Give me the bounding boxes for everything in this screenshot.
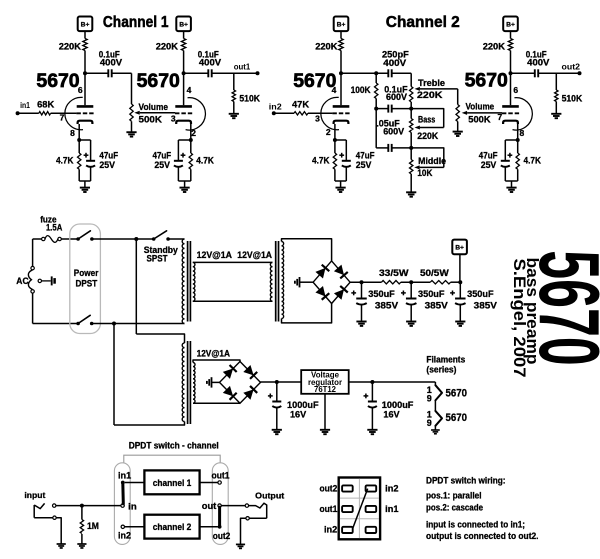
- svg-text:Channel 1: Channel 1: [103, 14, 169, 31]
- svg-text:385V: 385V: [425, 299, 449, 310]
- wire middle wiper loop: [411, 148, 444, 168]
- svg-text:Power: Power: [74, 267, 99, 278]
- svg-text:S.Engel, 2007: S.Engel, 2007: [510, 259, 529, 378]
- wire treble wiper down to volume pot (ch2): [457, 89, 459, 105]
- DPDT lug out2 (top-left): [342, 485, 353, 491]
- junction dot input / 1M: [80, 504, 84, 508]
- capacitor 47uF 25V cathode bypass (V2b): [501, 153, 513, 167]
- svg-text:5670: 5670: [446, 388, 468, 400]
- svg-text:Volume: Volume: [139, 102, 169, 112]
- junction dot plate node (V1b): [182, 71, 186, 75]
- svg-text:4.7K: 4.7K: [196, 156, 214, 166]
- DPDT lug nc (bottom-right): [366, 527, 377, 533]
- wire 47uF branch down (V1a): [90, 140, 92, 161]
- svg-text:5670: 5670: [465, 70, 508, 92]
- svg-text:2: 2: [326, 127, 331, 137]
- wire row3 left: [376, 147, 388, 149]
- potentiometer Volume 500K (ch1): [130, 104, 133, 121]
- wire 350uF 3 to ground: [459, 305, 461, 322]
- svg-text:25V: 25V: [154, 160, 170, 170]
- wire HV bridge plus to C1: [350, 281, 381, 283]
- junction dot cathode node (V1a): [77, 138, 81, 142]
- wire out contact to output jack: [221, 505, 245, 507]
- svg-text:510K: 510K: [562, 93, 583, 103]
- junction dot cathode node (V2b): [516, 138, 520, 142]
- wire in1 to channel1: [125, 482, 145, 484]
- transformer T2 secondary winding HV: [282, 242, 284, 319]
- wire out1 node to 510K: [233, 73, 235, 90]
- B+ supply box (V1a): [78, 17, 93, 32]
- DPDT jumper wire diagonal: [353, 489, 368, 528]
- wire T1 secondary to T2 primary top: [193, 261, 273, 263]
- resistor 510K grid leak (out2): [555, 90, 558, 102]
- resistor 4.7K cathode (V2a): [333, 153, 336, 169]
- svg-text:7: 7: [60, 113, 65, 123]
- wire B+ to 220K (V1a): [84, 31, 86, 39]
- switch Standby SPST: [152, 231, 170, 241]
- wire 4.7K to bottom rail (V1a): [78, 169, 80, 181]
- wire plate node to coupling cap (out2): [511, 72, 535, 74]
- wire 47K to grid (V2a): [308, 112, 333, 114]
- svg-text:350uF: 350uF: [368, 288, 395, 299]
- resistor 220K plate load (V2a): [339, 39, 343, 51]
- wire treble cap to right rail top: [392, 72, 412, 74]
- wire HV bridge minus to chassis: [300, 281, 314, 283]
- triode 5670 (V1b): [175, 98, 205, 130]
- wire 510K to ground (ch2): [555, 102, 557, 114]
- wire cathode node to 4.7K (V2b): [517, 140, 519, 153]
- switch Power DPST pole 2: [76, 315, 93, 325]
- wire 47uF to bottom rail (V2a): [345, 167, 347, 181]
- svg-text:220K: 220K: [483, 41, 505, 52]
- svg-text:350uF: 350uF: [418, 288, 445, 299]
- wire bass wiper loop: [411, 109, 444, 128]
- wire between heaters: [434, 400, 436, 411]
- wire treble to row2 junction: [410, 102, 412, 109]
- svg-text:220K: 220K: [417, 90, 443, 100]
- wire down to volume pot (ch1): [131, 73, 133, 104]
- wire 1000uF-1 to ground: [276, 408, 278, 430]
- svg-text:channel 2: channel 2: [153, 522, 192, 532]
- bridge rectifier LV diode upper-right: [243, 365, 257, 379]
- wire 1000uF-2 to ground: [371, 408, 373, 430]
- svg-text:1.5A: 1.5A: [46, 222, 62, 233]
- transformer T1 core: [188, 241, 191, 322]
- wire row2 right: [392, 108, 412, 110]
- block channel 1: [144, 470, 199, 494]
- DPDT lug in1 (mid-right): [366, 506, 377, 512]
- svg-text:500K: 500K: [139, 114, 163, 124]
- bridge rectifier HV diode lower-left: [315, 286, 329, 300]
- svg-text:25V: 25V: [481, 160, 497, 170]
- junction dot cathode node (V2a): [333, 138, 337, 142]
- svg-text:Channel 2: Channel 2: [386, 14, 460, 31]
- svg-text:4: 4: [187, 85, 192, 95]
- triode 5670 (V2a): [321, 97, 350, 129]
- svg-text:Volume: Volume: [466, 102, 495, 112]
- svg-text:in2: in2: [269, 102, 283, 111]
- resistor 220K plate load (V2b): [508, 39, 512, 51]
- svg-text:4.7K: 4.7K: [312, 156, 330, 166]
- wire left rail row2 to row3: [375, 109, 377, 148]
- svg-text:8: 8: [70, 128, 75, 138]
- wire out2 node to 510K: [555, 73, 557, 90]
- wiper arrow Bass: [415, 126, 444, 130]
- wire coupling cap to out1: [212, 72, 258, 74]
- svg-text:12V@1A: 12V@1A: [197, 348, 231, 359]
- wire DPST sw2 to T1 primary bottom: [92, 323, 185, 325]
- wire mains hot drop: [135, 239, 137, 334]
- wire B+ to 220K (V2a): [340, 31, 342, 39]
- svg-text:220K: 220K: [417, 131, 438, 141]
- svg-text:385V: 385V: [474, 299, 498, 310]
- svg-text:25V: 25V: [99, 160, 115, 170]
- svg-text:Treble: Treble: [418, 78, 445, 88]
- svg-text:600V: 600V: [386, 92, 408, 102]
- svg-text:47K: 47K: [292, 99, 309, 109]
- wire plate node to plate (V2a): [340, 73, 342, 105]
- svg-text:B+: B+: [455, 245, 464, 252]
- transformer T3 secondary winding 12V: [193, 363, 195, 404]
- wire 47uF to bottom rail (V1a): [90, 167, 92, 181]
- ground HV bridge minus: [295, 277, 300, 287]
- svg-text:510K: 510K: [239, 93, 260, 103]
- wire bass pot to row3: [410, 133, 412, 148]
- svg-text:500K: 500K: [468, 114, 491, 124]
- svg-text:SPST: SPST: [147, 252, 168, 263]
- svg-text:16V: 16V: [290, 408, 307, 419]
- wire 1M node to in contact: [82, 505, 121, 507]
- ground LV bridge minus: [207, 377, 212, 387]
- wire 4.7K to bottom rail (V2b): [517, 169, 519, 181]
- gray bracket from title to switch lozenges: [124, 455, 220, 463]
- wire AC left vertical bottom: [32, 293, 34, 323]
- wire T2 secondary top to bridge: [282, 239, 332, 261]
- wire in2 to 47K: [274, 112, 294, 114]
- switch contact out1: [218, 481, 221, 484]
- bridge rectifier HV diode lower-right: [334, 286, 348, 300]
- svg-text:Middle: Middle: [418, 156, 446, 166]
- wire coupling cap to volume pot (ch1): [112, 72, 132, 74]
- terminal dot out2: [578, 71, 582, 75]
- junction dot LV node 2: [370, 380, 374, 384]
- svg-text:pos.1: parallel: pos.1: parallel: [426, 491, 482, 501]
- capacitor 47uF 25V cathode bypass (V2a): [339, 153, 351, 167]
- svg-text:out2: out2: [213, 531, 231, 541]
- ground volume pot (ch2): [453, 132, 463, 136]
- wire regulator out: [349, 381, 436, 383]
- resistor 510K grid leak (out1): [232, 90, 235, 102]
- output jack tip contact and lever: [245, 503, 267, 518]
- wire cathode node to 4.7K (V2a): [334, 140, 336, 153]
- potentiometer Volume 500K (ch2): [456, 105, 459, 122]
- svg-text:(series): (series): [426, 364, 456, 375]
- svg-text:5670: 5670: [446, 412, 468, 424]
- wire bottom rail (V1a): [79, 180, 90, 182]
- wire AC left vertical top: [32, 239, 34, 266]
- ground cathode (V2b): [506, 188, 516, 192]
- resistor 4.7K cathode (V1a): [78, 153, 81, 169]
- wire plate node to plate (V1a): [84, 73, 86, 105]
- svg-text:in: in: [128, 501, 137, 511]
- svg-text:350uF: 350uF: [467, 288, 494, 299]
- svg-text:12V@1A: 12V@1A: [237, 249, 272, 260]
- svg-text:AC: AC: [16, 275, 29, 286]
- wire cathode node to 47uF branch (V1a): [79, 139, 90, 141]
- wire B+ box to HV node3: [459, 254, 461, 281]
- svg-text:B+: B+: [81, 21, 90, 28]
- wire 68K to grid (V1a): [51, 112, 77, 114]
- wire LV bridge plus to regulator: [261, 381, 302, 383]
- svg-text:220K: 220K: [156, 41, 178, 52]
- resistor 220K plate load (V1a): [83, 39, 87, 51]
- switch contact out: [218, 504, 221, 507]
- junction dot right rail row2: [409, 107, 413, 111]
- fuse 1.5A: [42, 236, 62, 243]
- junction dot plate node (V2a): [339, 71, 343, 75]
- svg-text:50/5W: 50/5W: [420, 267, 449, 278]
- wire plate node to coupling cap (V1a): [85, 72, 108, 74]
- wire HV node1 to 350uF: [361, 282, 363, 298]
- wire in2 to channel2: [125, 526, 145, 528]
- potentiometer Treble 220K: [410, 87, 413, 103]
- DPDT lug in2b (bottom-left): [342, 527, 353, 533]
- svg-text:channel 1: channel 1: [153, 478, 192, 488]
- wire neutral to T3 primary bottom: [114, 422, 185, 426]
- svg-text:B+: B+: [179, 21, 188, 28]
- wire cathode to cathode node (V1a): [78, 124, 80, 140]
- wire cathode node to 4.7K (V1a): [78, 140, 80, 153]
- DPDT lug in2 (top-right): [366, 485, 377, 491]
- svg-text:1M: 1M: [87, 521, 99, 531]
- heater filament V1: [435, 385, 442, 400]
- wire heater to ground: [434, 426, 436, 430]
- junction dot HV node 1: [360, 280, 364, 284]
- svg-text:7: 7: [498, 112, 503, 122]
- wire 1M to ground: [81, 534, 83, 544]
- wire row2 to bass pot: [410, 109, 412, 119]
- wire channel1 to out1: [200, 482, 218, 484]
- svg-text:pos.2: cascade: pos.2: cascade: [426, 503, 483, 513]
- wire 4.7K to bottom rail (V1b): [190, 169, 192, 181]
- ground output jack: [236, 544, 245, 548]
- output jack sleeve contact: [246, 517, 267, 520]
- wire DPST to standby junction: [92, 238, 154, 240]
- transformer T1 primary winding: [182, 239, 184, 324]
- capacitor 350uF 385V filter 2: [401, 291, 416, 305]
- wire LV bridge minus to chassis: [212, 381, 220, 383]
- svg-text:9: 9: [427, 418, 432, 428]
- capacitor 0.1uF 400V coupling (ch1): [108, 69, 111, 77]
- junction dot right rail row3: [409, 146, 413, 150]
- wire cathode to cathode node (V2a): [334, 124, 336, 140]
- svg-text:out2: out2: [562, 63, 581, 72]
- wire rail to ground (V1b): [184, 181, 186, 188]
- capacitor 1000uF 16V output: [364, 394, 377, 408]
- svg-text:25V: 25V: [356, 160, 372, 170]
- wire channel2 to out2: [200, 526, 218, 528]
- svg-text:Output: Output: [255, 490, 284, 500]
- junction dot tone stack top left: [374, 71, 378, 75]
- B+ supply box (V1b): [176, 17, 191, 32]
- voltage regulator 76T12 box: [301, 370, 349, 394]
- switch contact in: [121, 504, 124, 507]
- svg-text:2: 2: [191, 128, 196, 138]
- wire 50/5W to node3: [451, 281, 461, 283]
- wire filament feed down: [434, 382, 436, 385]
- junction dot HV node 2: [409, 280, 413, 284]
- transformer T3 core: [188, 341, 191, 424]
- switch lever in to in1: [121, 483, 125, 504]
- svg-text:385V: 385V: [375, 299, 399, 310]
- wire cathode to cathode node (V2b): [517, 124, 519, 140]
- capacitor 47uF 25V cathode bypass (V1b): [174, 153, 186, 167]
- DPDT internal grid lines: [340, 479, 379, 538]
- heater filament V2: [435, 411, 442, 426]
- svg-text:9: 9: [427, 394, 432, 404]
- Power DPST enclosure outline: [70, 224, 101, 334]
- DPDT lug out1 (mid-left): [342, 506, 353, 512]
- wire standby to T1 primary: [168, 238, 184, 240]
- wire rail to ground (V2a): [340, 181, 342, 188]
- wire bottom rail (V2a): [335, 180, 346, 182]
- svg-text:DPDT switch wiring:: DPDT switch wiring:: [426, 476, 506, 486]
- resistor 4.7K cathode (V2b): [516, 153, 519, 169]
- svg-text:in1: in1: [20, 101, 30, 110]
- ground cathode (V2a): [336, 188, 346, 192]
- transformer T2 primary winding 12V: [270, 262, 272, 301]
- resistor 4.7K cathode (V1b): [189, 153, 192, 169]
- wire cathode node to 47uF branch (V2a): [335, 139, 346, 141]
- wire B+ to 220K (V2b): [510, 31, 512, 39]
- svg-text:out1: out1: [320, 504, 338, 514]
- svg-text:400V: 400V: [527, 57, 550, 67]
- ground 1000uF 2: [367, 430, 377, 434]
- wire cathode node to 47uF branch (V2b): [505, 139, 517, 141]
- terminal dot in1: [16, 111, 20, 115]
- transformer T2 core: [276, 241, 279, 322]
- svg-text:out1: out1: [212, 471, 230, 481]
- switch pole outline left (lozenge): [114, 463, 130, 545]
- wire 220K to plate node (V1b): [183, 51, 185, 74]
- svg-text:B+: B+: [506, 21, 515, 28]
- wire left rail top: [375, 73, 377, 83]
- ground regulator: [320, 430, 330, 434]
- wire right rail top to treble: [410, 73, 412, 86]
- junction dot plate node (V2b): [509, 71, 513, 75]
- ground 510K (ch2): [551, 114, 561, 118]
- block channel 2: [144, 515, 199, 539]
- ground cathode (V1a): [80, 188, 90, 192]
- svg-text:4.7K: 4.7K: [56, 156, 74, 166]
- svg-text:220K: 220K: [315, 41, 337, 52]
- wire 47uF branch down (V2b): [504, 140, 506, 161]
- wire 220K to plate node (V2b): [510, 51, 512, 74]
- wire row3 to middle pot: [410, 148, 412, 160]
- wire middle pot to ground: [410, 174, 412, 192]
- wire regulator ground stem: [324, 394, 326, 430]
- capacitor 0.1uF 400V output (ch1): [208, 69, 211, 77]
- wire volume pot to ground (ch2): [457, 122, 459, 132]
- wire 47uF to bottom rail (V2b): [504, 167, 506, 181]
- resistor 68K grid stopper: [39, 112, 51, 115]
- wire row2 left: [376, 108, 388, 110]
- svg-text:in2: in2: [118, 531, 131, 541]
- wire plate node to plate (V1b): [183, 73, 185, 105]
- svg-text:100K: 100K: [351, 85, 371, 95]
- wire 220K to plate node (V1a): [84, 51, 86, 74]
- wire 47uF branch down (V2a): [345, 140, 347, 161]
- svg-text:400V: 400V: [383, 58, 407, 68]
- bridge rectifier HV diode upper-right: [334, 265, 348, 279]
- wire input sleeve to ground: [56, 518, 61, 544]
- input jack tip contact and lever: [34, 503, 56, 508]
- svg-text:5670: 5670: [137, 70, 180, 92]
- transformer T3 primary winding: [182, 343, 184, 422]
- wire in1 to 68K: [18, 112, 39, 114]
- resistor 220K plate load (V1b): [181, 39, 185, 51]
- svg-text:68K: 68K: [37, 99, 54, 109]
- svg-text:4: 4: [332, 85, 337, 95]
- svg-text:5670: 5670: [293, 70, 336, 92]
- wiper arrow Middle: [414, 165, 444, 169]
- wire 100K to row2: [375, 99, 377, 109]
- B+ supply box (source): [452, 240, 467, 255]
- resistor 33/5W: [382, 281, 401, 284]
- capacitor 1000uF 16V input: [268, 394, 281, 408]
- wire 510K to ground (ch1): [233, 102, 235, 114]
- svg-text:8: 8: [520, 128, 525, 138]
- svg-text:400V: 400V: [100, 57, 123, 67]
- wire cathode node to 4.7K (V1b): [190, 140, 192, 153]
- B+ supply box (V2b): [503, 17, 518, 32]
- wire volume pot to ground (ch1): [131, 121, 133, 132]
- junction dot left rail row2: [374, 107, 378, 111]
- junction dot mains hot: [134, 237, 138, 241]
- wire hot to T3 primary: [136, 334, 184, 343]
- wire B+ stem corner: [459, 281, 461, 284]
- svg-text:6: 6: [513, 85, 518, 95]
- wire 350uF 1 to ground: [361, 305, 363, 322]
- potentiometer Middle 10K: [410, 160, 413, 175]
- wire cathode node to 47uF branch (V1b): [178, 139, 190, 141]
- svg-text:10K: 10K: [417, 168, 432, 178]
- ground 350uF 2: [406, 322, 416, 326]
- svg-text:12V@1A: 12V@1A: [197, 249, 233, 260]
- svg-text:76T12: 76T12: [314, 385, 337, 394]
- bridge rectifier LV diode lower-left: [223, 386, 237, 400]
- ground 350uF 3: [455, 322, 465, 326]
- bridge rectifier HV diode upper-left: [315, 265, 329, 279]
- ground 510K (ch1): [229, 114, 239, 118]
- svg-text:3: 3: [171, 114, 176, 124]
- switch pole outline right (lozenge): [212, 463, 228, 545]
- resistor 100K slope: [375, 83, 378, 99]
- triode 5670 (V1a): [65, 97, 94, 129]
- resistor 50/5W: [430, 281, 450, 284]
- resistor 47K grid stopper: [294, 112, 308, 115]
- switch Power DPST pole 1: [76, 231, 93, 241]
- input jack sleeve contact: [34, 505, 56, 519]
- triode 5670 (V2b): [502, 98, 532, 130]
- ground 350uF 1: [356, 322, 366, 326]
- svg-text:600V: 600V: [383, 126, 405, 136]
- wire AC top left: [33, 238, 42, 240]
- wire mains neutral drop: [113, 324, 115, 426]
- switch contact in2: [121, 525, 124, 528]
- svg-text:out: out: [202, 501, 217, 511]
- wire T3 secondary bottom to bridge: [193, 402, 240, 404]
